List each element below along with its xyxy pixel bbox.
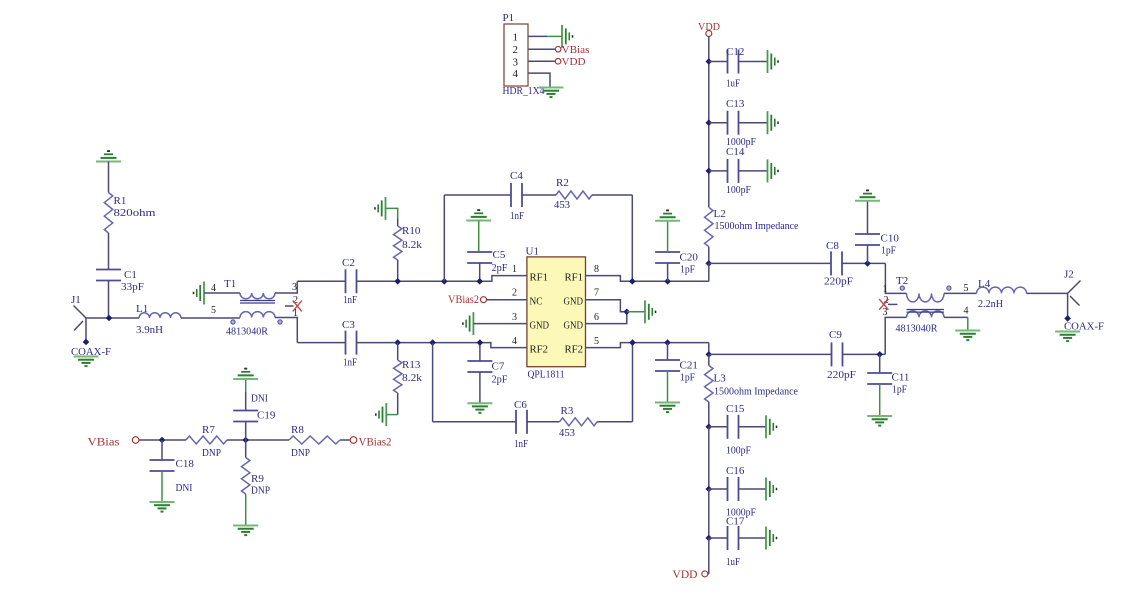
node (pin6/7 junction) xyxy=(624,309,631,316)
inductor L3 1500ohm xyxy=(705,366,798,403)
wire T2 pin3 xyxy=(885,317,906,354)
wire to T2 pin1 xyxy=(885,263,906,293)
svg-text:C16: C16 xyxy=(726,465,745,477)
wire C8-T2 xyxy=(842,262,885,264)
svg-text:1500ohm Impedance: 1500ohm Impedance xyxy=(714,386,798,398)
node (L3 junction) xyxy=(706,351,713,358)
wire T1 pin3 to top line xyxy=(275,281,297,293)
wire C12 left lead xyxy=(709,61,728,63)
svg-text:C7: C7 xyxy=(492,361,505,373)
ground (R10 top) xyxy=(375,197,386,220)
svg-text:4: 4 xyxy=(211,283,216,294)
svg-text:L4: L4 xyxy=(978,278,991,290)
svg-text:C19: C19 xyxy=(257,410,276,422)
wire feedback bottom-left vertical xyxy=(432,343,434,422)
svg-text:2pF: 2pF xyxy=(492,262,508,274)
capacitor C2 1nF xyxy=(342,257,357,306)
node (feedback right bottom) xyxy=(629,339,636,346)
transformer T2 4813040R xyxy=(883,275,969,335)
no-connect X (T2 pin2) xyxy=(879,299,888,310)
wire T1 pin1 to bottom line xyxy=(275,318,297,343)
svg-text:C1: C1 xyxy=(124,269,137,281)
wire C1-node xyxy=(108,281,110,319)
resistor R2 453 xyxy=(554,177,592,211)
capacitor C19 DNI xyxy=(233,393,276,422)
svg-text:C14: C14 xyxy=(726,146,745,158)
svg-text:L2: L2 xyxy=(714,208,726,220)
wire C11 xyxy=(879,354,881,373)
capacitor C14 100pF xyxy=(726,146,751,196)
node (J1/C1 junction) xyxy=(106,315,113,322)
wire C5-top line xyxy=(479,263,481,281)
connector P1 HDR_1X4 xyxy=(503,12,545,97)
svg-text:C3: C3 xyxy=(342,319,355,331)
inductor L2 1500ohm xyxy=(705,207,799,246)
node (C21/bottom line) xyxy=(664,339,671,346)
node (bias center) xyxy=(242,437,249,444)
svg-text:C18: C18 xyxy=(176,458,195,470)
svg-text:C20: C20 xyxy=(680,252,699,264)
svg-text:33pF: 33pF xyxy=(121,281,144,293)
wire T1 pin4 xyxy=(204,292,240,294)
ground (above C10) xyxy=(855,190,880,200)
svg-text:1: 1 xyxy=(512,264,517,275)
wire L3 node-C9 xyxy=(709,353,832,355)
svg-text:1pF: 1pF xyxy=(680,264,695,276)
svg-text:C12: C12 xyxy=(726,46,744,58)
wire R7-node xyxy=(227,439,289,441)
svg-text:GND: GND xyxy=(564,320,584,331)
wire L1-T1 pin5 xyxy=(181,317,240,319)
svg-text:DNI: DNI xyxy=(176,482,193,494)
wire C9-T2 pin3 xyxy=(843,353,886,355)
wire bottom line to U1 pin4 xyxy=(357,343,527,348)
wire R10-top line xyxy=(397,260,399,281)
wire C15 right lead xyxy=(739,426,767,428)
svg-text:4813040R: 4813040R xyxy=(896,323,939,335)
pin 6 GND xyxy=(564,312,600,331)
wire feedback left vertical xyxy=(443,195,445,281)
capacitor C3 1nF xyxy=(342,319,357,369)
wire pin6/7-ground xyxy=(627,311,645,313)
wire C17 left lead xyxy=(709,537,728,539)
wire L3-C15 xyxy=(708,354,710,426)
svg-text:T2: T2 xyxy=(896,275,908,287)
svg-text:3.9nH: 3.9nH xyxy=(136,324,163,336)
wire R13-ground xyxy=(386,393,397,415)
wire C15 left lead xyxy=(709,426,728,428)
wire C6-R3 xyxy=(527,421,560,423)
svg-text:R1: R1 xyxy=(114,195,127,207)
IC U1 QPL1811 xyxy=(526,246,586,381)
port VDD (P1) xyxy=(555,56,585,68)
svg-text:NC: NC xyxy=(530,296,543,307)
svg-text:8: 8 xyxy=(594,264,599,275)
svg-text:4: 4 xyxy=(512,336,517,347)
node (R10/top line) xyxy=(394,278,401,285)
ground (P1 pin1) xyxy=(562,25,573,48)
svg-text:1nF: 1nF xyxy=(343,294,357,306)
svg-text:C2: C2 xyxy=(342,257,355,269)
capacitor C18 DNI xyxy=(150,458,195,494)
ground (below C18) xyxy=(150,502,175,512)
svg-text:1nF: 1nF xyxy=(510,210,524,222)
svg-text:3: 3 xyxy=(512,312,517,323)
svg-text:C9: C9 xyxy=(829,329,842,341)
wire P1 pin2 xyxy=(528,48,555,50)
pin 3 GND xyxy=(512,312,549,331)
svg-text:RF1: RF1 xyxy=(530,272,549,283)
svg-text:C10: C10 xyxy=(881,233,900,245)
capacitor C20 1pF xyxy=(655,252,698,276)
port VBias2 (U1 pin2) xyxy=(448,294,487,306)
svg-text:VBias: VBias xyxy=(562,44,590,56)
svg-text:C6: C6 xyxy=(514,399,527,411)
wire C20 xyxy=(667,263,669,281)
wire bottom line left xyxy=(297,342,345,344)
wire top line to U1 pin1 xyxy=(357,276,527,282)
wire C18 top xyxy=(161,440,163,460)
pin 4 (P1) xyxy=(513,68,519,80)
wire C13 left lead xyxy=(709,122,728,124)
svg-text:RF2: RF2 xyxy=(565,344,584,355)
port VBias (P1) xyxy=(555,44,589,56)
node (C12 junction) xyxy=(706,58,713,65)
svg-text:2.2nH: 2.2nH xyxy=(978,298,1003,310)
capacitor C5 2pF xyxy=(467,249,507,274)
svg-text:4: 4 xyxy=(964,305,969,316)
ground (above R1) xyxy=(96,151,121,192)
svg-text:C15: C15 xyxy=(726,403,745,415)
svg-text:453: 453 xyxy=(554,199,570,211)
pin 2 (P1) xyxy=(513,44,519,56)
ground (R13 bottom) xyxy=(376,403,387,426)
resistor R13 8.2k xyxy=(394,359,423,393)
pin 3 (P1) xyxy=(513,56,519,68)
resistor R9 DNP xyxy=(242,458,271,497)
wire top line-L2 node xyxy=(708,263,710,281)
wire C7 bottom xyxy=(479,372,481,403)
ground (above C5) xyxy=(466,210,491,252)
svg-text:R2: R2 xyxy=(556,177,569,189)
wire bottom-R13 xyxy=(397,343,399,360)
pin 2 NC xyxy=(512,288,543,308)
capacitor C13 1000pF xyxy=(726,98,756,148)
wire C7 top xyxy=(479,343,481,361)
wire to C4 xyxy=(444,194,511,196)
wire C19 bottom xyxy=(245,422,247,441)
svg-text:1uF: 1uF xyxy=(726,78,740,90)
pin 4 RF2 xyxy=(512,336,548,355)
wire C14 left lead xyxy=(709,170,728,172)
svg-text:R10: R10 xyxy=(402,225,421,237)
svg-text:5: 5 xyxy=(964,283,969,294)
wire U1 pin8 to top line xyxy=(586,276,709,282)
wire R9-ground xyxy=(245,494,247,526)
wire rail C15-C16 xyxy=(708,427,710,489)
ground (C17) xyxy=(766,527,777,550)
svg-text:C4: C4 xyxy=(510,170,523,182)
ground (U1 pins 6,7) xyxy=(645,300,656,323)
svg-text:RF2: RF2 xyxy=(530,344,549,355)
capacitor C1 33pF xyxy=(96,269,144,293)
svg-text:C8: C8 xyxy=(826,240,839,252)
wire to C6 xyxy=(433,421,516,423)
wire C16 left lead xyxy=(709,488,728,490)
wire VBias2-pin2 xyxy=(487,299,527,301)
svg-text:820ohm: 820ohm xyxy=(114,207,157,219)
svg-text:R8: R8 xyxy=(291,424,304,436)
svg-text:J2: J2 xyxy=(1064,269,1074,281)
svg-text:1nF: 1nF xyxy=(343,357,357,369)
ground (C15) xyxy=(766,415,777,438)
svg-text:VBias2: VBias2 xyxy=(448,294,479,306)
svg-text:U1: U1 xyxy=(526,246,539,258)
wire bottom line-L3 node xyxy=(708,343,710,355)
port VBias2 xyxy=(350,437,392,449)
wire R8-VBias2 xyxy=(340,439,350,441)
wire C19-ground xyxy=(245,379,247,411)
wire C13 right lead xyxy=(739,122,768,124)
capacitor C21 1pF xyxy=(655,360,698,384)
wire ground-R10 xyxy=(386,208,398,226)
svg-text:8.2k: 8.2k xyxy=(402,372,423,384)
ground (T2 pin4) xyxy=(955,331,980,341)
node (C7/bottom line) xyxy=(477,339,484,346)
svg-text:453: 453 xyxy=(559,427,575,439)
node (L2 junction) xyxy=(706,260,713,267)
capacitor C6 1nF xyxy=(514,399,528,450)
node (C20/top line) xyxy=(664,278,671,285)
svg-text:1pF: 1pF xyxy=(680,372,695,384)
wire C12 right lead xyxy=(739,61,768,63)
capacitor C10 1pF xyxy=(855,233,899,257)
wire VDD rail top xyxy=(708,37,710,208)
node (C10 junction) xyxy=(864,260,871,267)
svg-text:GND: GND xyxy=(564,296,584,307)
svg-text:VDD: VDD xyxy=(562,56,586,68)
port VDD (bottom) xyxy=(673,569,709,581)
inductor L4 2.2nH xyxy=(977,278,1027,310)
svg-text:100pF: 100pF xyxy=(726,184,751,196)
pin 1 (P1) xyxy=(513,31,519,43)
wire C21 xyxy=(667,343,669,360)
svg-text:DNP: DNP xyxy=(202,447,221,459)
wire J1-L1 xyxy=(86,317,139,319)
capacitor C12 1uF xyxy=(726,46,744,90)
svg-text:J1: J1 xyxy=(71,294,81,306)
inductor L1 3.9nH xyxy=(136,303,181,336)
svg-text:1uF: 1uF xyxy=(726,556,740,568)
ground (T1 pin4) xyxy=(194,282,205,305)
ground (below J2) xyxy=(1055,332,1080,342)
svg-text:P1: P1 xyxy=(503,12,515,24)
wire L4-J2 xyxy=(1027,292,1068,294)
capacitor C7 2pF xyxy=(467,361,507,386)
svg-text:T1: T1 xyxy=(224,278,236,290)
svg-text:VDD: VDD xyxy=(673,569,698,581)
wire C4-R2 xyxy=(522,194,556,196)
wire U1 pin5 to bottom line xyxy=(586,343,709,348)
pin 1 RF1 xyxy=(512,264,548,283)
wire C18-ground xyxy=(161,471,163,502)
ground (P1 pin4) xyxy=(539,88,564,98)
ground (below C11) xyxy=(867,416,892,426)
svg-text:5: 5 xyxy=(594,336,599,347)
resistor R1 820ohm xyxy=(104,193,156,234)
svg-text:RF1: RF1 xyxy=(565,272,584,283)
svg-text:220pF: 220pF xyxy=(827,369,856,381)
svg-text:DNP: DNP xyxy=(291,447,310,459)
svg-text:L3: L3 xyxy=(714,373,727,385)
resistor R10 8.2k xyxy=(394,225,423,260)
node (C15 junction) xyxy=(706,424,713,431)
node (C5/top line) xyxy=(476,278,483,285)
pin 7 GND xyxy=(564,288,600,308)
ground (C16) xyxy=(766,478,777,501)
svg-text:R13: R13 xyxy=(402,359,421,371)
wire C21-ground xyxy=(667,371,669,403)
connector J2 COAX-F xyxy=(1064,269,1104,333)
wire rail C16-C17 xyxy=(708,489,710,538)
node (feedback left top) xyxy=(441,278,448,285)
capacitor C15 100pF xyxy=(726,403,751,457)
svg-text:C21: C21 xyxy=(680,360,698,372)
ground (above C19) xyxy=(233,369,258,379)
svg-text:5: 5 xyxy=(211,305,216,316)
svg-text:100pF: 100pF xyxy=(726,445,751,457)
svg-text:C11: C11 xyxy=(892,372,910,384)
wire top line left xyxy=(297,280,345,282)
pin 8 RF1 xyxy=(565,264,600,283)
svg-text:6: 6 xyxy=(594,312,599,323)
wire U1 pin7 xyxy=(586,300,627,312)
svg-text:2: 2 xyxy=(512,288,517,299)
ground (U1 pin3) xyxy=(463,312,474,335)
svg-text:DNP: DNP xyxy=(251,485,270,497)
wire C11-ground xyxy=(879,384,881,416)
wire C16 right lead xyxy=(739,488,767,490)
node (C16 junction) xyxy=(706,486,713,493)
wire C20-ground xyxy=(667,221,669,252)
svg-text:VBias2: VBias2 xyxy=(359,437,392,449)
ground (below C7) xyxy=(467,403,492,413)
wire C14 right lead xyxy=(739,170,768,172)
pin 5 RF2 xyxy=(565,336,600,355)
node (feedback right top) xyxy=(629,278,636,285)
svg-text:8.2k: 8.2k xyxy=(402,239,423,251)
svg-text:1500ohm Impedance: 1500ohm Impedance xyxy=(715,220,799,232)
svg-text:R7: R7 xyxy=(202,424,215,436)
wire T2 pin5-L4 xyxy=(944,292,977,294)
svg-text:4813040R: 4813040R xyxy=(226,326,269,338)
ground (below R9) xyxy=(233,526,258,536)
svg-text:C5: C5 xyxy=(493,249,506,261)
wire R1-C1 xyxy=(108,233,110,270)
ground (C14) xyxy=(768,159,779,182)
node (C11 junction) xyxy=(876,351,883,358)
capacitor C11 1pF xyxy=(867,372,909,396)
capacitor C8 220pF xyxy=(824,240,853,288)
node (R13/bottom line) xyxy=(394,339,401,346)
no-connect X (T1 pin2) xyxy=(293,301,302,312)
svg-text:R9: R9 xyxy=(251,473,264,485)
capacitor C16 1000pF xyxy=(726,465,756,519)
port VBias xyxy=(88,437,139,449)
resistor R3 453 xyxy=(559,405,597,439)
resistor R8 DNP xyxy=(289,424,340,459)
ground (above C20) xyxy=(655,210,680,220)
node (C18 junction) xyxy=(159,437,166,444)
svg-text:1pF: 1pF xyxy=(892,384,907,396)
svg-text:2pF: 2pF xyxy=(492,374,508,386)
wire U1 pin6 xyxy=(586,312,627,324)
svg-text:2: 2 xyxy=(513,44,519,56)
svg-text:1: 1 xyxy=(883,284,888,295)
node (C13 junction) xyxy=(706,119,713,126)
wire P1 pin3 xyxy=(528,60,555,62)
svg-text:QPL1811: QPL1811 xyxy=(528,369,565,381)
node (C17 junction) xyxy=(706,535,713,542)
ground (C13) xyxy=(768,111,779,134)
wire feedback bottom-right vertical xyxy=(632,343,634,422)
wire P1 pin4-ground xyxy=(528,73,550,87)
svg-text:4: 4 xyxy=(513,68,519,80)
wire L2-node xyxy=(708,247,710,264)
svg-text:GND: GND xyxy=(530,320,550,331)
ground (below C21) xyxy=(655,403,680,413)
port VDD (top) xyxy=(698,21,720,37)
wire R9 top xyxy=(245,440,247,458)
node (feedback left bottom) xyxy=(429,339,436,346)
wire C10 xyxy=(867,245,869,263)
wire L2 node-C8 xyxy=(709,262,831,264)
transformer T1 4813040R xyxy=(211,278,298,338)
capacitor C17 1uF xyxy=(726,516,745,569)
svg-text:DNI: DNI xyxy=(251,393,268,405)
svg-text:1pF: 1pF xyxy=(881,245,896,257)
svg-text:1nF: 1nF xyxy=(514,438,528,450)
wire rail to VDD port xyxy=(708,538,710,574)
svg-text:L1: L1 xyxy=(136,303,148,315)
connector J1 COAX-F xyxy=(71,294,111,358)
resistor R7 DNP xyxy=(186,424,227,459)
capacitor C9 220pF xyxy=(827,329,856,381)
svg-text:3: 3 xyxy=(513,56,519,68)
wire T2 pin4 xyxy=(944,317,968,330)
svg-text:C17: C17 xyxy=(726,516,745,528)
ground (C12) xyxy=(768,50,779,73)
wire ground-pin3 xyxy=(473,323,527,325)
svg-text:VBias: VBias xyxy=(88,437,121,449)
wire VBias-R7 xyxy=(139,439,186,441)
svg-text:R3: R3 xyxy=(561,405,574,417)
node (C14 junction) xyxy=(706,168,713,175)
ground (below J1) xyxy=(74,357,99,367)
svg-text:3: 3 xyxy=(292,282,297,293)
wire feedback right vertical xyxy=(631,195,633,281)
capacitor C4 1nF xyxy=(510,170,524,222)
wire R3-feedback right xyxy=(597,421,632,423)
wire C10-ground xyxy=(867,201,869,234)
svg-text:220pF: 220pF xyxy=(824,276,853,288)
wire R2-feedback right xyxy=(592,194,632,196)
svg-text:1: 1 xyxy=(513,31,519,43)
svg-text:7: 7 xyxy=(594,288,599,299)
svg-text:C13: C13 xyxy=(726,98,745,110)
wire P1 pin1-ground xyxy=(528,35,562,37)
wire C17 right lead xyxy=(739,537,767,539)
